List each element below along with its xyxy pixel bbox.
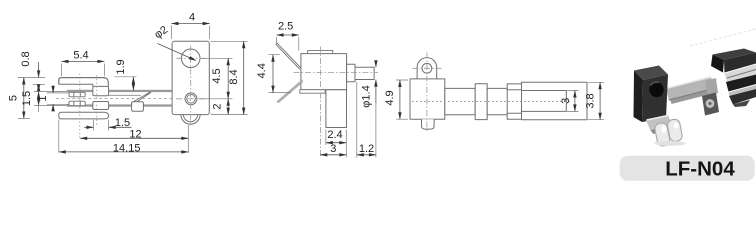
dimension 3 [345,145,347,158]
wire side center vertical [190,46,192,127]
node bottom plunger [422,119,435,129]
svg-text:1.5: 1.5 [21,91,33,106]
node bottom plunger arc [181,115,200,125]
node shaft section 1 [445,88,475,114]
dimension 2.5 [277,37,299,51]
svg-text:1: 1 [37,95,49,101]
node photo clamp shim lower [729,85,756,96]
node L body [301,54,347,90]
node photo faint reflection line [690,29,756,46]
node bottom housing bar [59,112,109,119]
node top housing bar [59,78,109,87]
node lower terminal tab [93,102,109,110]
node mounting ear [417,58,437,79]
node stem collar [347,64,355,81]
node step top [507,84,521,90]
node photo left block top face [634,66,668,81]
dimension 12 [187,125,189,153]
svg-text:5.4: 5.4 [73,49,88,61]
node ear hole [422,63,432,73]
svg-text:2: 2 [212,103,224,109]
wire side center horizontal bottom [176,98,207,100]
node photo clear prong 2 [667,118,683,142]
svg-text:8.4: 8.4 [228,69,240,84]
dimension 3 right [567,91,579,112]
node photo left block left face [634,71,644,123]
wire top terminal strip [67,90,172,92]
node photo clamp jaw [726,75,756,92]
dimension 1.5 bottom [94,120,109,131]
node shaft hole [185,93,197,105]
node end block inner [522,91,567,112]
wire ear center vertical [426,53,428,134]
svg-text:3.8: 3.8 [585,93,597,108]
dimension 3.8 [588,82,604,119]
node upper terminal tab [93,86,109,95]
svg-text:3: 3 [330,143,336,155]
svg-text:φ1.4: φ1.4 [360,85,372,107]
node photo right clamp front face [724,53,756,73]
svg-text:5: 5 [8,95,20,101]
svg-text:1.2: 1.2 [359,143,374,155]
node side housing [172,41,209,114]
node photo right clamp left face [711,55,724,73]
node product label plate [620,156,755,181]
dimension 0.8 [18,77,45,79]
node actuator wedge [133,92,151,103]
dimension 4.5 and 2 [198,58,233,99]
svg-text:3: 3 [560,98,572,104]
node lever position 2 ghost [278,81,302,102]
dimension 14.15 [58,120,60,153]
node vertical leg [326,90,347,128]
wire shaft center line [412,101,572,103]
node photo metal strip [666,77,714,102]
svg-text:14.15: 14.15 [113,142,141,154]
node pin [355,67,374,79]
node lower contact [69,101,85,106]
svg-text:4: 4 [189,11,195,23]
svg-text:12: 12 [129,129,141,141]
node front body [410,79,445,119]
svg-text:0.8: 0.8 [20,51,32,66]
node photo strip end metal [705,78,718,96]
dimension 5 [18,118,30,120]
dimension 5.4 [62,64,105,77]
node top button tab [308,50,333,53]
svg-text:4.5: 4.5 [211,68,223,83]
node collar [475,84,487,120]
node bottom tab [300,90,325,94]
svg-text:LF-N04: LF-N04 [665,158,735,181]
node photo right clamp top face [713,49,756,61]
node photo prong shadow [654,141,686,146]
wire ear center horizontal [413,67,442,69]
node lever position 1 [276,43,301,69]
dimension 1.5 left [34,92,67,106]
dimension 1.2 [356,82,358,158]
dimension phi1.4 [375,61,377,68]
dimension 1.9 [115,76,137,78]
node mounting hole top [181,49,200,68]
node photo clamp shim upper [725,65,756,83]
node photo block hole [648,80,665,98]
wire bottom terminal strip [67,104,172,106]
node shaft section 2 [487,88,507,114]
node photo bracket under block [646,115,673,132]
node photo clear prong 1 [654,122,671,147]
node photo left block front face [642,75,668,123]
node step bottom [507,113,521,119]
svg-text:2.4: 2.4 [327,129,342,141]
dimension 1 [47,93,69,104]
node actuator foot [132,102,144,112]
dimension phi2 leader [158,44,197,61]
svg-text:1.9: 1.9 [115,59,127,74]
wire center line vertical B [96,75,98,126]
dimension 4.9 [396,80,408,119]
wire center line vertical A [79,74,81,140]
wire contact arm [109,94,141,96]
dimension 2.4 [326,130,346,146]
node end block outer [522,82,588,119]
svg-text:2.5: 2.5 [278,20,293,32]
svg-text:1.5: 1.5 [115,117,130,129]
node photo screw [702,93,719,116]
dimension 4 [172,26,210,40]
svg-text:4.4: 4.4 [256,63,268,78]
node photo clamp bottom [729,89,756,105]
dimension 4.4 [269,55,292,93]
node upper contact [69,92,85,97]
wire side center horizontal top [177,57,206,59]
wire center line horizontal [56,98,172,100]
dimension 8.4 [211,41,248,114]
wire middle center horizontal [294,71,379,73]
wire middle center vertical [320,47,322,158]
svg-text:4.9: 4.9 [384,90,396,105]
